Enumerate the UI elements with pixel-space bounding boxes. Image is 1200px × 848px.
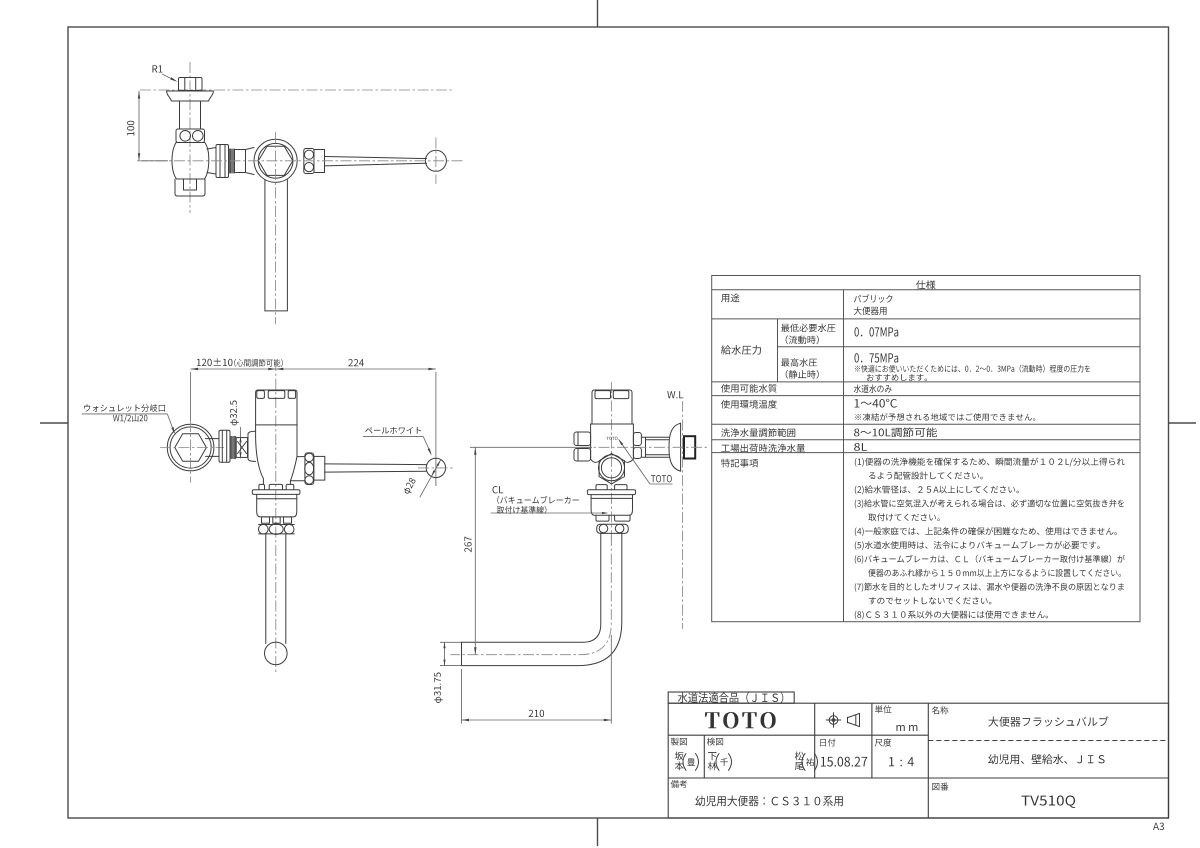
plan: handle socket xyxy=(304,149,314,174)
front: branch centerlines xyxy=(160,447,224,449)
front: locknut xyxy=(219,430,230,462)
value 0.07MPa xyxy=(854,327,898,336)
centering mark right xyxy=(1169,422,1197,424)
side: flush pipe with elbow xyxy=(462,533,622,666)
plan view: wall centerline xyxy=(140,89,453,91)
value 8L xyxy=(854,443,867,451)
row label 使用可能水質 xyxy=(721,384,777,393)
label ベールホワイト xyxy=(365,427,421,434)
plan view: supply stop centerline vertical xyxy=(189,62,191,213)
plan: handle centerline xyxy=(137,160,463,162)
side: spud hex nut xyxy=(599,454,624,484)
検図 label xyxy=(707,738,723,746)
centering mark top xyxy=(597,0,599,27)
plan: wall flange xyxy=(167,91,214,101)
side: lower flange xyxy=(587,490,635,495)
label CL (vacuum breaker reference line) xyxy=(492,486,503,493)
front: flush pipe xyxy=(266,534,286,644)
table column line sublabel xyxy=(777,319,779,382)
extension lines xyxy=(190,372,192,421)
plan: stop valve body xyxy=(172,143,209,180)
plan: stop valve nut band with balls xyxy=(176,129,205,143)
side: vacuum breaker xyxy=(591,495,632,516)
front: valve body cap xyxy=(256,390,297,425)
side: right bumps xyxy=(633,433,641,446)
centering mark bottom xyxy=(597,818,599,846)
単位 label + mm xyxy=(875,705,891,713)
dim φ31.75 xyxy=(440,641,462,643)
label TOTO leader xyxy=(651,475,672,482)
JIS approval box 水道法適合品(JIS) xyxy=(668,692,794,703)
side: valve centerline vertical xyxy=(610,382,612,545)
図番 label + TV510Q xyxy=(932,783,948,791)
title block horizontals xyxy=(668,734,928,736)
A3 sheet size label xyxy=(1153,823,1164,830)
plan: supply stem xyxy=(180,101,201,129)
value 0.75MPa + note xyxy=(854,353,898,362)
front: washlet branch circle xyxy=(167,424,214,471)
front: inlet boss xyxy=(248,431,256,461)
spec table outer box xyxy=(712,276,1140,622)
stamp 松尾(祐) xyxy=(795,752,804,761)
dim line 120/224 xyxy=(191,368,436,370)
plan: supply hex cap xyxy=(179,78,203,91)
value 1〜40℃ + note xyxy=(855,399,897,408)
sublabel 最高水圧(静止時) xyxy=(781,358,817,366)
front: handle rod xyxy=(325,464,427,472)
plan: union nut xyxy=(216,145,229,178)
front: thread xyxy=(229,436,231,458)
dim φ28 xyxy=(420,459,441,497)
sublabel 最低必要水圧(流動時) xyxy=(781,324,835,332)
plan: flush pipe down xyxy=(265,180,288,311)
front: pipe end circle xyxy=(265,642,288,665)
row label 用途 xyxy=(721,294,739,303)
value 水道水のみ xyxy=(854,384,892,392)
side: valve body xyxy=(592,423,632,425)
side: wall hex cap bold xyxy=(684,436,695,458)
row label 特記事項 xyxy=(721,459,758,468)
dim 267 xyxy=(470,446,592,448)
label W.L + wall line xyxy=(667,391,683,398)
日付 label + date xyxy=(820,739,835,747)
dim text 224 xyxy=(348,359,364,366)
third-angle projection symbol xyxy=(826,713,859,728)
特記事項 content lines xyxy=(855,458,1125,467)
label R1 xyxy=(152,65,162,72)
plan: inner hex xyxy=(258,146,292,175)
table column line value xyxy=(843,290,845,622)
front: handle ball xyxy=(426,458,445,477)
dim 100 xyxy=(138,91,140,161)
side: upper tab row xyxy=(596,485,607,490)
tiny TOTO mark on body xyxy=(607,437,618,440)
plan: flush valve body circle xyxy=(254,139,297,182)
subname 幼児用、壁給水、ＪＩＳ xyxy=(988,754,1104,764)
title block outer xyxy=(668,703,1168,818)
row label 洗浄水量調節範囲 xyxy=(721,428,795,437)
row label 給水圧力 xyxy=(721,345,761,354)
plan: inlet pipe stub xyxy=(236,148,255,175)
side: coupling balls xyxy=(597,524,629,533)
centering mark left xyxy=(40,422,68,424)
front: lower flange xyxy=(252,490,300,495)
stamp 下林(千) xyxy=(708,752,716,760)
front: vb tabs xyxy=(262,517,270,523)
side: vb tabs xyxy=(596,515,609,521)
front: valve vertical centerline xyxy=(275,360,277,672)
plan: stop valve bottom tabs xyxy=(175,179,205,196)
title block verticals xyxy=(814,703,816,778)
plan: handle rod xyxy=(325,157,427,166)
dim text 120±10(心間調節可能) xyxy=(197,358,233,366)
front: handle socket xyxy=(305,453,314,485)
row label 使用環境温度 xyxy=(721,400,777,409)
front: upper tab row xyxy=(259,484,265,489)
plan: ball vertical centerline xyxy=(435,138,437,184)
備考 label + remark xyxy=(671,780,687,788)
row label 工場出荷時洗浄水量 xyxy=(721,444,805,453)
table header 仕様 xyxy=(916,280,936,289)
front: coupling with balls xyxy=(259,525,295,534)
dim 210 xyxy=(461,669,463,724)
製図 label xyxy=(671,738,687,746)
table row lines xyxy=(712,289,1140,291)
plan: handle ball xyxy=(425,150,446,171)
front: adapter cone xyxy=(236,438,247,458)
front: vacuum breaker body xyxy=(257,494,297,517)
plan: flush valve vertical centerline xyxy=(275,132,277,324)
side: pipe bend centerline xyxy=(450,535,611,655)
side: horizontal centerline xyxy=(580,446,710,448)
name 大便器フラッシュバルブ xyxy=(988,716,1108,726)
stamp 坂本(豊) xyxy=(675,752,684,761)
side: wall flange xyxy=(669,423,681,471)
dim φ32.5 xyxy=(230,401,239,426)
label ウォシュレット分岐口 W1/2山20 xyxy=(84,404,165,412)
side: pipe to wall xyxy=(641,437,669,457)
front: handle boss xyxy=(290,457,305,481)
value パブリック/大便器用 xyxy=(854,294,892,303)
value 8〜10L調節可能 xyxy=(854,427,937,437)
名称 label xyxy=(932,706,949,714)
尺度 label + 1:4 xyxy=(875,739,892,747)
TOTO logo xyxy=(705,712,776,729)
side: valve cap xyxy=(592,390,632,424)
plan: outlet horizontal lines to union xyxy=(207,148,216,175)
plan: thread hatch xyxy=(228,149,230,173)
side: handle socket rear xyxy=(574,432,591,446)
front: shaft to valve xyxy=(206,439,220,457)
front: valve body xyxy=(256,424,297,426)
